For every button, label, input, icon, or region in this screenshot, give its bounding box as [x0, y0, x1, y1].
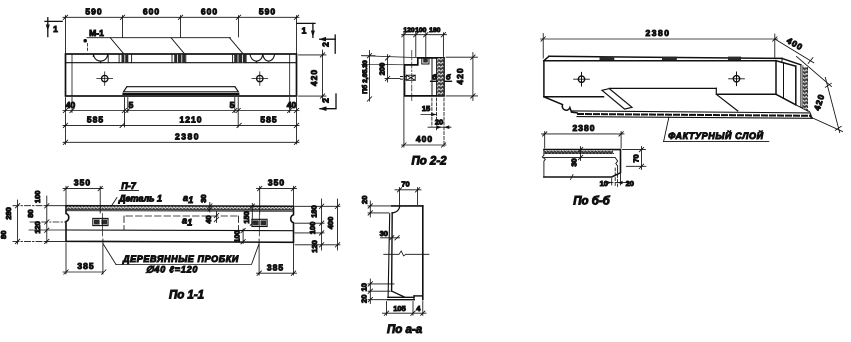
svg-text:150: 150: [242, 211, 251, 224]
svg-text:Пб 2,65.30: Пб 2,65.30: [361, 60, 369, 94]
dim 420 (axon, slanted): [797, 57, 843, 133]
dim 20 top-left (a-a): [368, 201, 391, 217]
svg-text:590: 590: [85, 7, 102, 17]
inner edge verticals: [71, 54, 73, 96]
dim 30 (plan, rotated): [208, 203, 212, 213]
svg-text:10: 10: [600, 179, 608, 188]
svg-text:5: 5: [230, 100, 235, 110]
svg-text:385: 385: [77, 261, 94, 271]
svg-text:70: 70: [632, 154, 641, 162]
svg-text:М-1: М-1: [89, 28, 104, 38]
section mark 2 bottom: [319, 94, 336, 111]
svg-text:30: 30: [380, 229, 388, 238]
right cup recess: [250, 54, 275, 62]
dim 420 right of section 2-2: [446, 53, 478, 101]
dim 15: [421, 98, 437, 130]
connector lines from view1: [362, 56, 418, 58]
near top edge: [544, 60, 776, 62]
strip top edge: [609, 87, 716, 89]
mid line (plan): [66, 229, 294, 232]
small open boxes in strip: [108, 54, 246, 63]
break mark on bottom edge: [571, 175, 574, 180]
svg-text:б: б: [446, 73, 451, 82]
inner line to drip: [544, 158, 618, 173]
svg-text:1210: 1210: [180, 115, 203, 125]
bottom dim row 3 : 2380: [63, 129, 299, 145]
svg-text:30: 30: [570, 158, 579, 166]
textured layer hatch (plan): [67, 206, 294, 210]
bottom edge (double): [388, 296, 414, 298]
top strip line: [66, 62, 297, 64]
dashed strip outline (plan): [124, 216, 239, 230]
section 2-2 outline: [405, 58, 445, 96]
dim 105 / 4 (a-a): [383, 302, 427, 316]
svg-text:100: 100: [308, 222, 317, 235]
strip right step: [715, 88, 717, 94]
svg-text:100: 100: [232, 230, 241, 243]
plan outline: [66, 206, 294, 243]
svg-text:П-7: П-7: [121, 181, 136, 191]
svg-text:590: 590: [259, 7, 276, 17]
svg-text:10: 10: [360, 283, 369, 291]
far top edge: [549, 56, 782, 58]
svg-text:70: 70: [401, 180, 409, 189]
top dimension line 590/600/600/590: [63, 15, 299, 53]
front right edge: [775, 61, 777, 95]
top dims 120 100 180: [402, 33, 447, 65]
inner wall: [391, 213, 394, 291]
svg-text:30: 30: [199, 194, 208, 202]
embedded plate M-1 middle (hatched): [174, 54, 185, 62]
dim 30 left (a-a): [381, 236, 400, 240]
left dim column outer: [13, 200, 43, 244]
left end edge with notch: [544, 97, 577, 113]
M-1 leader dot: [83, 39, 87, 43]
dim 350 right: [257, 186, 297, 214]
svg-text:2380: 2380: [175, 132, 200, 142]
svg-text:385: 385: [267, 262, 284, 272]
centreline of lifting hole (dash-dot): [411, 51, 413, 101]
svg-text:105: 105: [393, 304, 406, 313]
svg-text:400: 400: [416, 134, 433, 144]
svg-text:350: 350: [268, 178, 285, 188]
svg-text:600: 600: [143, 7, 160, 17]
wooden plug right: [252, 215, 267, 237]
left dim 200: [385, 55, 400, 83]
svg-text:2380: 2380: [573, 123, 596, 133]
bottom textured band: [572, 111, 813, 118]
section mark 1 right: [297, 23, 315, 37]
svg-text:ФАКТУРНЫЙ СЛОЙ: ФАКТУРНЫЙ СЛОЙ: [668, 130, 763, 141]
end face outer edge: [795, 66, 797, 105]
svg-text:180: 180: [429, 27, 441, 34]
svg-text:100: 100: [415, 27, 427, 34]
svg-text:420: 420: [309, 69, 319, 86]
lip cove curve: [392, 206, 400, 213]
svg-text:200: 200: [377, 63, 386, 76]
leader: wooden plugs: [103, 244, 259, 265]
svg-text:20: 20: [360, 196, 369, 204]
section mark 1 left: [45, 18, 62, 37]
dim 400: [402, 66, 447, 147]
M-1 callout line with three legs: [87, 38, 243, 54]
dim 2380 (b-b): [542, 132, 625, 149]
svg-text:Деталь 1: Деталь 1: [118, 194, 162, 204]
svg-text:120: 120: [310, 240, 319, 253]
dim 350 left: [63, 186, 103, 213]
textured band in strip (dashes): [124, 93, 239, 95]
dim 70 (a-a): [395, 188, 421, 207]
svg-text:2380: 2380: [646, 28, 671, 38]
dim 385 left: [63, 239, 106, 274]
svg-text:20: 20: [360, 295, 369, 303]
embedded plate M-1 left (hatched): [122, 54, 129, 62]
dims 10 and 20 bottom-left (a-a): [368, 279, 394, 304]
svg-text:По а-а: По а-а: [387, 324, 423, 336]
lifting hole right (axon): [729, 72, 745, 86]
svg-text:180: 180: [309, 205, 318, 218]
right dim column: [295, 199, 340, 250]
dim 420 right of view1: [299, 50, 327, 100]
dims 10 and 20 (b-b): [604, 168, 631, 187]
textured layer line (plan): [66, 210, 294, 213]
lifting hole right: [252, 72, 268, 86]
small cup with plate on top: [422, 58, 429, 64]
svg-text:2: 2: [321, 42, 331, 47]
svg-text:2: 2: [321, 98, 331, 103]
svg-text:120: 120: [403, 27, 415, 34]
svg-text:350: 350: [74, 178, 91, 188]
svg-text:1: 1: [53, 24, 58, 34]
dim 385 right: [257, 239, 297, 275]
svg-text:20: 20: [626, 179, 634, 188]
break line: [384, 251, 429, 256]
svg-text:ДЕРЕВЯННЫЕ ПРОБКИ: ДЕРЕВЯННЫЕ ПРОБКИ: [122, 254, 239, 264]
embedded box in section: [401, 75, 416, 80]
end face step lines: [782, 58, 810, 111]
svg-text:80: 80: [0, 231, 8, 239]
bottom dim row 2 : 585 1210 585: [63, 114, 299, 128]
lifting hole left (axon): [574, 72, 590, 86]
left cup recess: [93, 54, 107, 63]
svg-text:5: 5: [129, 100, 134, 110]
textured layer hatch: [544, 150, 613, 153]
svg-text:1: 1: [188, 195, 193, 205]
dim 150 (plan, rotated): [250, 204, 254, 226]
svg-text:20: 20: [435, 117, 443, 126]
left top bevel: [544, 56, 549, 60]
svg-text:1: 1: [187, 218, 192, 228]
svg-text:600: 600: [201, 7, 218, 17]
outline top edge: [392, 205, 423, 207]
svg-text:15: 15: [422, 104, 430, 113]
bottom step to right edge: [414, 295, 423, 297]
wooden plug left: [93, 214, 108, 237]
dim 40 (plan, rotated): [214, 212, 218, 223]
bottom dim row 1 : 40 5 5 40: [63, 98, 299, 145]
bottom recessed strip: [124, 87, 239, 92]
svg-text:б: б: [432, 73, 437, 82]
dim 2380 (axon): [541, 34, 778, 59]
svg-text:40: 40: [287, 100, 297, 110]
svg-text:По 2-2: По 2-2: [411, 156, 447, 168]
dim 30 (b-b): [578, 147, 582, 161]
band hatch dashes: [578, 114, 810, 116]
section mark 2 top: [319, 35, 335, 53]
bottom lip slant: [392, 291, 405, 297]
textured layer line: [544, 153, 614, 155]
svg-text:1: 1: [302, 26, 307, 36]
svg-text:По 1-1: По 1-1: [169, 289, 204, 301]
plate marks on top face: [600, 57, 615, 60]
dim 70 (b-b): [623, 147, 646, 170]
textured hatch on end face: [803, 66, 808, 111]
front bottom edge right segment: [718, 93, 776, 95]
svg-text:80: 80: [26, 209, 35, 217]
svg-text:По б-б: По б-б: [573, 195, 610, 207]
svg-text:100: 100: [33, 191, 42, 204]
plug axis dash-dot left: [30, 221, 66, 223]
outline: [542, 150, 620, 177]
left dim column inner: [29, 196, 66, 244]
front bottom edge left segment: [544, 96, 604, 98]
outer wall: [388, 214, 390, 297]
svg-text:585: 585: [87, 115, 104, 125]
embedded plate M-1 right (hatched): [234, 54, 246, 62]
end face top edges: [776, 61, 796, 66]
svg-text:40: 40: [66, 100, 76, 110]
svg-text:585: 585: [260, 115, 277, 125]
dim 20: [428, 98, 451, 147]
svg-text:400: 400: [326, 217, 335, 230]
svg-text:280: 280: [4, 207, 13, 220]
strip right bevel: [716, 94, 737, 111]
panel outline: [66, 54, 297, 96]
svg-text:∅40 ℓ=120: ∅40 ℓ=120: [146, 265, 198, 275]
svg-text:40: 40: [204, 215, 213, 223]
vertical mark line with product designation: [362, 51, 376, 102]
svg-text:120: 120: [33, 221, 42, 234]
front face left edge: [543, 61, 545, 97]
right edge: [422, 206, 424, 300]
strip left bevel: [602, 89, 632, 110]
textured layer hatch on rib: [437, 58, 443, 95]
leader and label: fakturniy sloy: [664, 117, 669, 142]
svg-text:420: 420: [455, 67, 465, 84]
dim 100 (plan interior, rotated): [241, 228, 245, 244]
lifting hole left: [97, 72, 113, 86]
dim 400 (axon, slanted): [775, 39, 814, 63]
end bottom edge: [776, 94, 796, 105]
rib inner lines: [431, 58, 433, 96]
